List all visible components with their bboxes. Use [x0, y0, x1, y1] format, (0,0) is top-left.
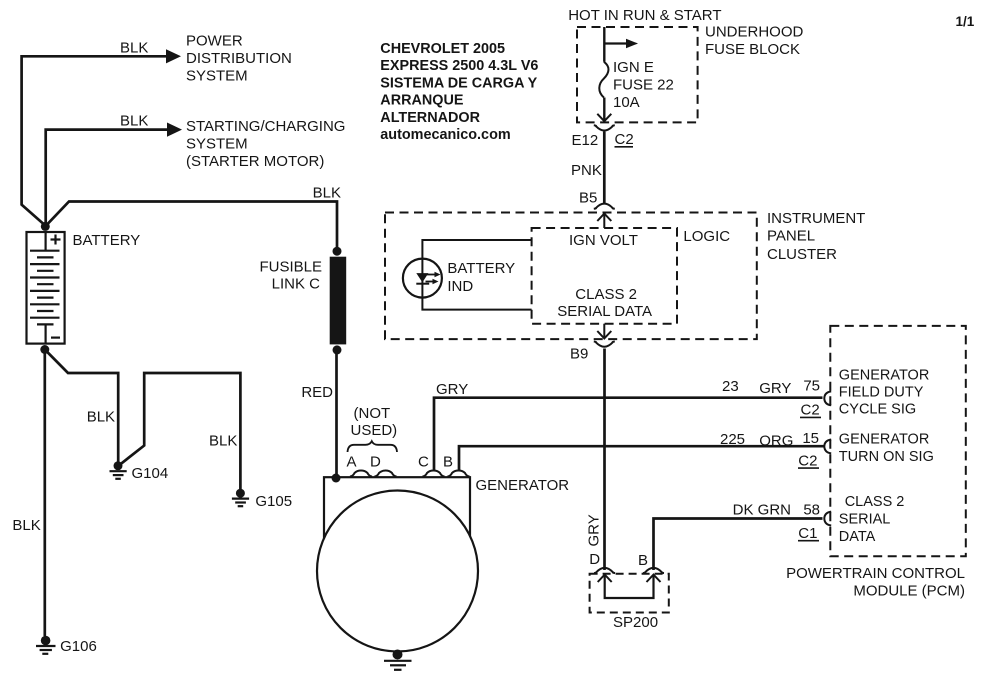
branch arrow inside fuse block	[604, 39, 638, 49]
generator body	[324, 477, 470, 545]
svg-text:STARTING/CHARGINGSYSTEM(STARTE: STARTING/CHARGINGSYSTEM(STARTER MOTOR)	[186, 118, 345, 170]
svg-text:G104: G104	[132, 465, 169, 482]
ground G104	[110, 461, 127, 479]
svg-text:GRY: GRY	[436, 381, 468, 398]
generator terminal D	[375, 471, 397, 477]
wire RED fusible link to generator	[335, 350, 338, 478]
svg-text:1/1: 1/1	[956, 14, 975, 29]
wire BLK battery negative to G106	[43, 350, 46, 637]
generator terminal C	[423, 471, 445, 477]
svg-text:BATTERY: BATTERY	[73, 232, 141, 249]
PCM dashed box	[830, 326, 966, 556]
underhood fuse block dashed box	[577, 27, 698, 122]
svg-text:BLK: BLK	[87, 409, 115, 426]
splice SP200 dashed box	[590, 574, 669, 613]
svg-text:E12: E12	[572, 132, 599, 149]
svg-text:GRY: GRY	[586, 514, 603, 546]
svg-text:IGN EFUSE 2210A: IGN EFUSE 2210A	[613, 59, 674, 111]
wire BLK battery negative to G104	[45, 350, 118, 462]
wire fuse to E12	[603, 98, 605, 121]
arrowhead at fuse block exit	[597, 114, 611, 121]
battery indicator LED circle	[403, 259, 442, 298]
generator circle	[317, 491, 478, 652]
junction battery positive	[41, 222, 50, 231]
svg-text:LINK C: LINK C	[272, 276, 321, 293]
wire BLK G104 to G105	[120, 373, 241, 489]
svg-text:DK GRN: DK GRN	[733, 502, 791, 519]
svg-text:C1: C1	[798, 525, 817, 542]
connector arc pin 58	[824, 512, 831, 526]
wire GRY generator C to PCM	[434, 398, 823, 471]
battery indicator loop wire	[422, 240, 531, 310]
svg-text:B5: B5	[579, 190, 597, 207]
ground G106	[36, 636, 56, 654]
svg-text:GENERATOR: GENERATOR	[476, 477, 570, 494]
wire BLK to power distribution system	[22, 49, 181, 226]
junction fusible link bottom	[333, 345, 342, 354]
svg-text:MODULE (PCM): MODULE (PCM)	[853, 583, 965, 600]
svg-text:IND: IND	[447, 278, 473, 295]
generator terminal A	[350, 471, 372, 477]
svg-text:BLK: BLK	[12, 517, 40, 534]
instrument panel cluster dashed box	[385, 213, 757, 340]
svg-text:15: 15	[802, 430, 819, 447]
arrowhead into SP200 left	[598, 575, 612, 582]
connector E12/C2 arc	[594, 125, 615, 130]
brace over A D	[348, 441, 398, 452]
junction fusible link top	[333, 247, 342, 256]
label C2 pin75	[800, 402, 821, 419]
label C1 pin58	[798, 525, 819, 542]
svg-text:B9: B9	[570, 346, 588, 363]
LED cathode bar	[416, 283, 429, 285]
connector B5 arc	[594, 204, 615, 209]
LED triangle	[416, 273, 428, 282]
svg-text:D: D	[589, 551, 600, 568]
connector arc D at SP200	[594, 568, 615, 573]
svg-text:POWERTRAIN CONTROL: POWERTRAIN CONTROL	[786, 565, 965, 582]
wire PNK E12 to B5	[603, 132, 606, 204]
connector B9 arc	[594, 342, 615, 347]
fuse IGN E FUSE 22 10A	[599, 62, 608, 98]
svg-text:225: 225	[720, 431, 745, 448]
arrowhead into SP200 right	[647, 575, 661, 582]
svg-text:CHEVROLET 2005EXPRESS 2500 4.3: CHEVROLET 2005EXPRESS 2500 4.3L V6SISTEM…	[380, 41, 538, 143]
generator terminal B	[448, 471, 470, 477]
svg-text:75: 75	[803, 378, 820, 395]
svg-text:C2: C2	[801, 402, 820, 419]
arrowhead B9 exit of cluster	[597, 331, 611, 338]
wire ORG generator B to PCM	[459, 446, 824, 471]
svg-text:GRY: GRY	[759, 380, 791, 397]
label C2 (underhood connector)	[615, 131, 634, 148]
svg-text:GENERATORTURN ON SIG: GENERATORTURN ON SIG	[839, 432, 934, 466]
fusible link C	[330, 257, 347, 345]
wire BLK battery positive to fusible link	[46, 202, 337, 252]
svg-text:BLK: BLK	[120, 40, 148, 57]
battery	[27, 232, 65, 344]
svg-text:23: 23	[722, 378, 739, 395]
svg-text:INSTRUMENTPANELCLUSTER: INSTRUMENTPANELCLUSTER	[767, 210, 865, 263]
svg-text:C2: C2	[615, 131, 634, 148]
svg-text:58: 58	[803, 502, 820, 519]
svg-text:BLK: BLK	[120, 113, 148, 130]
svg-text:USED): USED)	[351, 422, 398, 439]
svg-text:CLASS 2: CLASS 2	[575, 286, 637, 303]
svg-text:D: D	[370, 454, 381, 471]
splice U wire	[605, 575, 654, 598]
wire class 2 serial data to B9 exit	[603, 324, 605, 338]
junction RED at generator	[332, 474, 341, 483]
svg-text:PNK: PNK	[571, 162, 602, 179]
svg-text:A: A	[347, 454, 357, 471]
wire BLK to starting/charging system	[46, 123, 182, 226]
svg-text:SERIAL DATA: SERIAL DATA	[557, 303, 652, 320]
svg-text:B: B	[638, 552, 648, 569]
svg-text:LOGIC: LOGIC	[683, 228, 730, 245]
svg-text:BATTERY: BATTERY	[447, 260, 515, 277]
svg-text:C2: C2	[798, 452, 817, 469]
LED arrow 1	[427, 272, 441, 278]
svg-text:C: C	[418, 454, 429, 471]
LED arrow 2	[426, 279, 439, 285]
ground G105	[232, 489, 249, 507]
svg-text:SP200: SP200	[613, 614, 658, 631]
generator ground	[384, 650, 412, 670]
wire B9 to SP200 splice	[603, 349, 606, 571]
label C2 pin15	[798, 452, 819, 469]
logic dashed box	[532, 228, 677, 324]
connector arc B at SP200	[643, 568, 664, 573]
svg-text:RED: RED	[301, 384, 333, 401]
svg-text:ORG: ORG	[759, 432, 793, 449]
wire from box top into fuse	[603, 27, 605, 62]
connector arc pin 15	[824, 440, 831, 454]
svg-text:G105: G105	[255, 493, 292, 510]
svg-text:HOT IN RUN & START: HOT IN RUN & START	[568, 7, 721, 24]
svg-text:FUSIBLE: FUSIBLE	[259, 259, 322, 276]
svg-text:BLK: BLK	[209, 433, 237, 450]
connector arc pin 75	[824, 391, 831, 405]
svg-text:G106: G106	[60, 638, 97, 655]
svg-text:BLK: BLK	[313, 185, 341, 202]
svg-text:B: B	[443, 454, 453, 471]
svg-text:GENERATORFIELD DUTYCYCLE SIG: GENERATORFIELD DUTYCYCLE SIG	[839, 367, 930, 417]
arrowhead B5 entry into cluster	[597, 214, 611, 228]
svg-text:CLASS 2SERIALDATA: CLASS 2SERIALDATA	[839, 494, 905, 545]
svg-text:UNDERHOODFUSE BLOCK: UNDERHOODFUSE BLOCK	[705, 24, 804, 59]
wire DK GRN SP200 B to PCM	[654, 519, 823, 571]
junction battery negative	[40, 345, 49, 354]
svg-text:POWERDISTRIBUTIONSYSTEM: POWERDISTRIBUTIONSYSTEM	[186, 33, 292, 85]
svg-text:(NOT: (NOT	[354, 405, 391, 422]
svg-text:IGN VOLT: IGN VOLT	[569, 232, 638, 249]
